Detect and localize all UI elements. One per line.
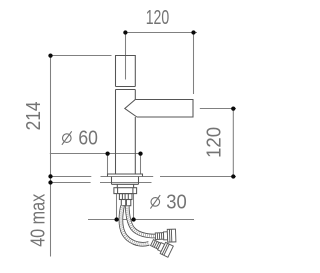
svg-text:214: 214 xyxy=(23,101,45,130)
svg-text:120: 120 xyxy=(146,7,170,29)
svg-text:30: 30 xyxy=(166,192,187,214)
svg-text:60: 60 xyxy=(78,128,98,150)
svg-text:120: 120 xyxy=(204,127,226,158)
svg-text:40 max: 40 max xyxy=(28,194,50,247)
